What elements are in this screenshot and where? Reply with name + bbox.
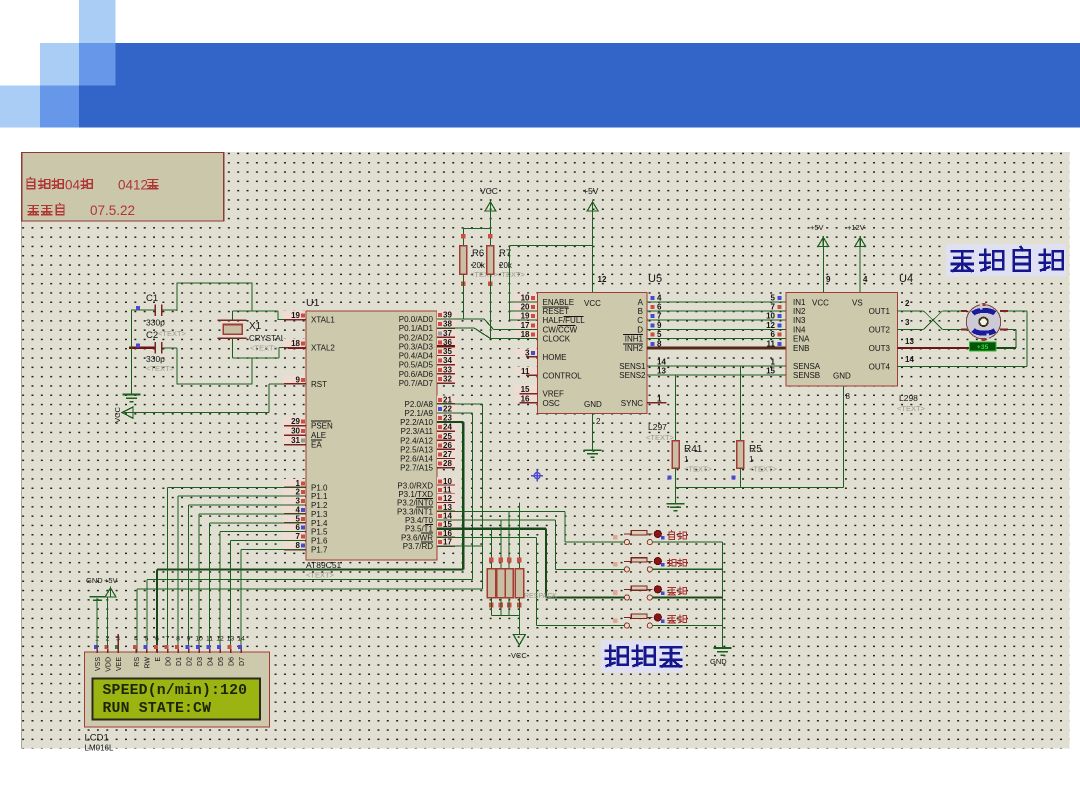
LCD pin 8 D1 bbox=[177, 645, 179, 653]
svg-text:RS: RS bbox=[134, 657, 141, 667]
U1 pin 38 P0.1/AD1 bbox=[437, 320, 457, 328]
svg-text:INH2: INH2 bbox=[625, 344, 644, 353]
wire P1.0 to D0 bbox=[168, 486, 307, 488]
ground R41 R5 bbox=[667, 503, 685, 505]
svg-text:10: 10 bbox=[766, 312, 775, 321]
LCD pin 10 D3 bbox=[198, 645, 200, 653]
svg-text:8: 8 bbox=[176, 636, 180, 643]
U1 pin 2 P1.1 bbox=[283, 488, 305, 496]
LCD pin 12 D5 bbox=[219, 645, 221, 653]
svg-text:+12V: +12V bbox=[847, 223, 865, 232]
wire INH1 to ENA bbox=[647, 338, 786, 340]
svg-text:8: 8 bbox=[296, 541, 301, 550]
svg-text:P0.3/AD3: P0.3/AD3 bbox=[399, 342, 434, 351]
wire C1 right branch to top net bbox=[176, 283, 178, 311]
U1 pin 21 P2.0/A8 bbox=[437, 395, 457, 403]
LCD pin 11 D4 bbox=[209, 645, 211, 653]
node markers R41 R5 bbox=[668, 476, 672, 480]
svg-text:30: 30 bbox=[291, 427, 300, 436]
wire crystal top to XTAL1 bbox=[231, 311, 233, 320]
svg-text:VS: VS bbox=[852, 299, 863, 308]
svg-text:18: 18 bbox=[521, 330, 530, 339]
svg-text:2: 2 bbox=[596, 417, 601, 426]
motor step indicator bbox=[970, 342, 997, 351]
svg-text:3: 3 bbox=[296, 497, 301, 506]
LCD1 LM016L body bbox=[85, 652, 270, 727]
button 4 label bbox=[668, 616, 676, 623]
motor shaft bbox=[979, 318, 988, 327]
svg-text:15: 15 bbox=[766, 367, 775, 376]
wire P0.1 to CLOCK bbox=[437, 327, 475, 329]
svg-text:<TEXT>: <TEXT> bbox=[646, 433, 675, 442]
svg-text:26: 26 bbox=[443, 441, 452, 450]
svg-text:SYNC: SYNC bbox=[621, 399, 643, 408]
push button 3 正转 bbox=[624, 595, 629, 600]
U1 pin 9 RST bbox=[283, 375, 305, 383]
LCD pin 1 VSS bbox=[96, 645, 98, 653]
wire P1.3 to D3 bbox=[199, 513, 306, 515]
svg-text:E: E bbox=[155, 657, 162, 662]
svg-text:D7: D7 bbox=[239, 657, 246, 666]
svg-text:14: 14 bbox=[237, 636, 245, 643]
wire VCC branch to R6 bbox=[463, 227, 490, 229]
svg-text:+35: +35 bbox=[977, 344, 989, 351]
U1 pin 27 P2.6/A14 bbox=[437, 450, 457, 458]
U5 CONTROL stub bbox=[526, 374, 538, 376]
svg-text:RESPACK: RESPACK bbox=[524, 593, 557, 600]
U5 pin 20 RESET bbox=[515, 303, 537, 311]
svg-text:6: 6 bbox=[771, 330, 776, 339]
svg-text:CRYSTAL: CRYSTAL bbox=[249, 334, 286, 343]
wire XTAL2 selected segment bbox=[288, 346, 306, 349]
svg-text:39: 39 bbox=[443, 311, 452, 320]
wire OUT1 cross bbox=[898, 310, 924, 312]
U1 pin 5 P1.4 bbox=[283, 514, 305, 522]
microcontroller U1 AT89C51 body bbox=[306, 311, 437, 560]
svg-text:CW/CCW: CW/CCW bbox=[543, 325, 578, 334]
svg-text:28: 28 bbox=[443, 459, 452, 468]
svg-text:OSC: OSC bbox=[543, 399, 561, 408]
svg-text:6: 6 bbox=[657, 303, 662, 312]
svg-text:+5V: +5V bbox=[583, 186, 599, 196]
svg-text:<TEXT>: <TEXT> bbox=[684, 465, 713, 474]
U1 pin 8 P1.7 bbox=[283, 541, 305, 549]
svg-text:12: 12 bbox=[598, 275, 607, 284]
wire P0.0 to CW/CCW bbox=[437, 318, 484, 320]
U5 VREF stub bbox=[519, 393, 537, 395]
wire button 4 to bus bbox=[653, 625, 723, 627]
U1 pin 16 P3.6/WR bbox=[437, 529, 457, 537]
LCD pin 14 D7 bbox=[240, 645, 242, 653]
svg-text:P2.0/A8: P2.0/A8 bbox=[405, 400, 434, 409]
svg-text:A: A bbox=[638, 298, 644, 307]
wire P3.4 to button2 bbox=[437, 519, 555, 521]
svg-text:VCC: VCC bbox=[113, 407, 122, 423]
wire P1.7 to D7 bbox=[241, 548, 306, 550]
LCD pin 13 D6 bbox=[230, 645, 232, 653]
stepper motor body bbox=[966, 305, 1000, 339]
svg-text:RESET: RESET bbox=[543, 307, 570, 316]
svg-text:37: 37 bbox=[443, 329, 452, 338]
U1 pin 13 P3.3/INT1 bbox=[437, 503, 457, 511]
svg-text:7: 7 bbox=[166, 636, 170, 643]
svg-text:12: 12 bbox=[216, 636, 224, 643]
U1 pin 26 P2.5/A13 bbox=[437, 441, 457, 449]
power VCC left arrow bbox=[122, 407, 133, 418]
U5 pin 16 OSC bbox=[515, 394, 537, 402]
LCD VEE stub red bbox=[117, 634, 119, 652]
svg-text:C2: C2 bbox=[146, 330, 158, 341]
svg-text:D5: D5 bbox=[218, 657, 225, 666]
U5 pin 15 VREF bbox=[515, 385, 537, 393]
U1 pin 39 P0.0/AD0 bbox=[437, 311, 457, 319]
svg-text:OUT1: OUT1 bbox=[869, 307, 891, 316]
wire top net drop bbox=[251, 282, 253, 311]
U1 pin 24 P2.3/A11 bbox=[437, 423, 457, 431]
svg-text:1: 1 bbox=[657, 394, 662, 403]
wire P3.6 to button4 bbox=[437, 536, 537, 538]
svg-text:7: 7 bbox=[771, 303, 776, 312]
svg-text:19: 19 bbox=[521, 312, 530, 321]
wire P2.1 to LCD RW bbox=[437, 412, 473, 414]
motor terminals top bottom bbox=[981, 303, 985, 306]
button 1 label bbox=[669, 531, 675, 540]
wire P1.4 to D4 bbox=[210, 522, 307, 524]
LCD pin 2 VDD bbox=[107, 645, 109, 653]
svg-text:5: 5 bbox=[296, 514, 301, 523]
svg-text:P1.5: P1.5 bbox=[311, 528, 328, 537]
svg-text:1: 1 bbox=[684, 455, 689, 464]
svg-text:33: 33 bbox=[443, 365, 452, 374]
svg-text:SENSA: SENSA bbox=[793, 362, 821, 371]
svg-text:10: 10 bbox=[195, 636, 203, 643]
svg-text:R6: R6 bbox=[472, 248, 484, 259]
svg-text:<TEXT>: <TEXT> bbox=[146, 364, 175, 373]
wire P2.2 to LCD E selected bbox=[437, 421, 463, 423]
wire P3.5 to button3 selected bbox=[437, 528, 546, 530]
crystal X1 bbox=[223, 325, 242, 335]
svg-text:D2: D2 bbox=[187, 657, 194, 666]
svg-text:VEE: VEE bbox=[116, 657, 123, 671]
resistor R5 bbox=[737, 441, 744, 468]
wire P1.2 to D2 bbox=[189, 504, 307, 506]
svg-text:SENS1: SENS1 bbox=[619, 362, 646, 371]
svg-text:17: 17 bbox=[521, 321, 530, 330]
svg-text:<TEXT>: <TEXT> bbox=[749, 465, 778, 474]
U1 pin 7 P1.6 bbox=[283, 532, 305, 540]
sheet left edge line bbox=[21, 152, 23, 749]
svg-text:1: 1 bbox=[296, 479, 301, 488]
motor coil bottom bbox=[973, 330, 995, 333]
svg-text:07.5.22: 07.5.22 bbox=[90, 203, 135, 218]
svg-text:14: 14 bbox=[657, 358, 666, 367]
wire SENS1 to SENSA bbox=[647, 365, 786, 367]
resistor pack RP1 bbox=[487, 569, 495, 598]
svg-text:SENS2: SENS2 bbox=[619, 371, 646, 380]
header left light square bbox=[40, 43, 79, 85]
svg-text:ENB: ENB bbox=[793, 344, 809, 353]
svg-text:EA: EA bbox=[311, 441, 322, 450]
svg-text:17: 17 bbox=[443, 538, 452, 547]
motor coil top bbox=[973, 310, 995, 313]
svg-text:11: 11 bbox=[443, 486, 452, 495]
button 2 label bbox=[668, 559, 676, 567]
svg-text:20: 20 bbox=[521, 303, 530, 312]
U5 pin 8 INH2 bbox=[651, 342, 655, 346]
svg-text:P3.4/T0: P3.4/T0 bbox=[405, 516, 434, 525]
U1 pin 12 P3.2/INT0 bbox=[437, 494, 457, 502]
svg-text:HOME: HOME bbox=[543, 353, 567, 362]
svg-text:RW: RW bbox=[145, 657, 152, 669]
respack pull-up taps bbox=[490, 529, 492, 569]
svg-text:P2.6/A14: P2.6/A14 bbox=[400, 455, 433, 464]
wire R7 bottom to CLOCK junction bbox=[489, 274, 491, 339]
title block bbox=[22, 152, 224, 221]
U1 pin 30 ALE bbox=[283, 427, 305, 435]
svg-text:24: 24 bbox=[443, 423, 452, 432]
svg-text:11: 11 bbox=[767, 340, 776, 349]
svg-text:OUT2: OUT2 bbox=[869, 325, 891, 334]
svg-text:<TEXT>: <TEXT> bbox=[306, 571, 335, 580]
svg-text:11: 11 bbox=[206, 636, 213, 643]
label 控制台 control console bbox=[601, 641, 683, 673]
svg-text:<TEXT>: <TEXT> bbox=[497, 270, 526, 279]
svg-text:C: C bbox=[637, 316, 643, 325]
ground capacitors left bbox=[131, 310, 133, 395]
svg-text:XTAL1: XTAL1 bbox=[311, 316, 335, 325]
LCD screen bbox=[93, 679, 261, 720]
LCD pin 7 D0 bbox=[167, 645, 169, 653]
wire B to IN2 bbox=[647, 310, 786, 312]
svg-text:U4: U4 bbox=[899, 273, 913, 285]
wire crystal bottom to XTAL2 bbox=[231, 338, 233, 358]
svg-text:16: 16 bbox=[521, 394, 530, 403]
header light blue square top bbox=[79, 0, 116, 43]
wire C to IN3 bbox=[647, 319, 786, 321]
LCD pin 4 RS bbox=[135, 645, 137, 653]
svg-text:21: 21 bbox=[443, 395, 452, 404]
svg-text:D3: D3 bbox=[197, 657, 204, 666]
U1 pin 36 selected stub bbox=[437, 345, 455, 347]
svg-text:20k: 20k bbox=[472, 261, 486, 270]
svg-text:9: 9 bbox=[296, 375, 301, 384]
svg-text:13: 13 bbox=[227, 636, 235, 643]
svg-text:4: 4 bbox=[657, 293, 662, 302]
svg-text:IN2: IN2 bbox=[793, 307, 806, 316]
svg-text:32: 32 bbox=[443, 375, 452, 384]
svg-text:22: 22 bbox=[443, 405, 452, 414]
svg-text:2: 2 bbox=[296, 488, 301, 497]
svg-text:VCC: VCC bbox=[812, 299, 829, 308]
label 步进电机 stepper motor bbox=[946, 245, 1066, 277]
svg-text:VREF: VREF bbox=[543, 390, 564, 399]
svg-text:P1.3: P1.3 bbox=[311, 510, 328, 519]
title text line2 唐亚民 07.5.22 bbox=[28, 206, 38, 215]
svg-text:OUT3: OUT3 bbox=[869, 344, 891, 353]
wire SENS2 to SENSB bbox=[647, 374, 786, 376]
svg-text:P1.6: P1.6 bbox=[311, 537, 328, 546]
U5 pin 5 INH1 bbox=[651, 333, 655, 337]
U5 pin 7 C bbox=[651, 314, 655, 318]
svg-text:D6: D6 bbox=[229, 657, 236, 666]
resistor R7 bbox=[487, 246, 494, 275]
U1 pin 32 P0.7/AD7 bbox=[437, 375, 457, 383]
U5 SYNC stub bbox=[647, 402, 667, 404]
svg-text:P2.3/A11: P2.3/A11 bbox=[401, 427, 434, 436]
svg-text:IN3: IN3 bbox=[793, 316, 806, 325]
svg-text:D1: D1 bbox=[176, 657, 183, 666]
svg-text:P3.1/TXD: P3.1/TXD bbox=[398, 490, 433, 499]
wire button 1 to bus bbox=[653, 541, 723, 543]
svg-text:IN4: IN4 bbox=[793, 325, 806, 334]
svg-text:L298: L298 bbox=[899, 393, 918, 403]
svg-text:12: 12 bbox=[766, 321, 775, 330]
LCD pin 5 RW bbox=[146, 645, 148, 653]
svg-text:VDD: VDD bbox=[106, 657, 113, 672]
svg-text:P3.0/RXD: P3.0/RXD bbox=[397, 481, 433, 490]
svg-text:SPEED(n/min):120: SPEED(n/min):120 bbox=[103, 683, 248, 699]
U5 pin 4 A bbox=[651, 296, 655, 300]
svg-text:LCD1: LCD1 bbox=[85, 733, 109, 744]
wire SENS2 to R41 bbox=[675, 375, 677, 441]
ground buttons bbox=[713, 647, 731, 649]
U5 pin 11 CONTROL bbox=[515, 367, 537, 375]
svg-text:1: 1 bbox=[749, 455, 754, 464]
svg-text:9: 9 bbox=[187, 636, 191, 643]
capacitor C2 bbox=[129, 347, 155, 349]
U1 pin 23 P2.2/A10 bbox=[437, 414, 457, 422]
svg-text:330p: 330p bbox=[146, 318, 165, 328]
svg-text:6: 6 bbox=[296, 523, 301, 532]
driver U5 L297 body bbox=[538, 293, 648, 414]
svg-text:P3.7/RD: P3.7/RD bbox=[403, 542, 433, 551]
LCD pin 3 VEE bbox=[117, 645, 119, 653]
svg-text:VSS: VSS bbox=[95, 657, 102, 671]
svg-text:20k: 20k bbox=[499, 261, 513, 270]
driver U4 L298 body bbox=[786, 292, 898, 386]
svg-text:P0.0/AD0: P0.0/AD0 bbox=[399, 315, 434, 324]
capacitor C1 bbox=[132, 309, 155, 311]
svg-text:CONTROL: CONTROL bbox=[543, 371, 583, 380]
svg-text:<TEXT>: <TEXT> bbox=[158, 329, 187, 338]
U1 pin 17 P3.7/RD bbox=[437, 538, 457, 546]
svg-text:P2.2/A10: P2.2/A10 bbox=[400, 418, 433, 427]
svg-text:27: 27 bbox=[443, 450, 452, 459]
svg-text:R41: R41 bbox=[684, 444, 703, 455]
header bottom-left light square bbox=[0, 85, 40, 127]
svg-text:3: 3 bbox=[905, 318, 910, 327]
wire P3.7 to RS riser junction bbox=[437, 545, 483, 547]
U5 pin 6 B bbox=[651, 305, 655, 309]
svg-text:+5V: +5V bbox=[810, 223, 824, 232]
push button 4 反转 bbox=[624, 623, 629, 628]
svg-text:P2.4/A12: P2.4/A12 bbox=[400, 436, 433, 445]
U1 pin 29 PSEN bbox=[283, 417, 305, 425]
U5 pin 19 HALF/FULL bbox=[515, 312, 537, 320]
wire P3.3 to button1 bbox=[437, 510, 565, 512]
svg-text:P1.1: P1.1 bbox=[311, 492, 328, 501]
svg-text:OUT4: OUT4 bbox=[869, 362, 891, 371]
power VCC down arrow bbox=[513, 635, 525, 646]
svg-text:5: 5 bbox=[657, 330, 662, 339]
svg-text:19: 19 bbox=[291, 311, 300, 320]
wire D to IN4 bbox=[647, 328, 786, 330]
wire button 3 to bus bbox=[653, 596, 723, 598]
U1 pin 19 XTAL1 bbox=[283, 311, 305, 319]
wire R6 bottom to P0.0 bbox=[462, 274, 464, 319]
svg-text:C1: C1 bbox=[146, 293, 158, 304]
LCD pin 6 E bbox=[156, 645, 158, 653]
svg-text:34: 34 bbox=[443, 356, 452, 365]
U1 pin 6 P1.5 bbox=[283, 523, 305, 531]
svg-text:ENABLE: ENABLE bbox=[543, 298, 575, 307]
svg-text:RST: RST bbox=[311, 380, 327, 389]
svg-text:0412: 0412 bbox=[118, 178, 148, 193]
svg-text:16: 16 bbox=[443, 529, 452, 538]
U1 pin 11 P3.1/TXD bbox=[437, 486, 457, 494]
wire P1.5 to D5 bbox=[220, 531, 306, 533]
wire OUT2 cross bbox=[898, 328, 924, 330]
U1 pin 25 P2.4/A12 bbox=[437, 432, 457, 440]
wire +5V to ENABLE/RESET/HALF bbox=[509, 245, 592, 247]
wire bottom net drop bbox=[251, 358, 253, 385]
svg-text:5: 5 bbox=[771, 293, 776, 302]
svg-text:18: 18 bbox=[291, 339, 300, 348]
svg-text:10: 10 bbox=[443, 477, 452, 486]
svg-text:P1.7: P1.7 bbox=[311, 546, 328, 555]
svg-text:IN1: IN1 bbox=[793, 298, 806, 307]
svg-text:D4: D4 bbox=[208, 657, 215, 666]
svg-text:4: 4 bbox=[134, 636, 138, 643]
wire C2 right branch to bottom net bbox=[176, 348, 178, 384]
svg-text:VCC: VCC bbox=[480, 186, 498, 196]
push button 2 减速 bbox=[624, 567, 629, 572]
button 3 label bbox=[668, 588, 676, 595]
svg-text:+5V: +5V bbox=[104, 576, 118, 585]
wire top net horizontal bbox=[176, 282, 252, 284]
U5 pin 17 CW/CCW bbox=[515, 321, 537, 329]
wire button 2 to bus bbox=[653, 568, 723, 570]
motor right stubs bbox=[1000, 310, 1008, 312]
U1 pin 3 P1.2 bbox=[283, 497, 305, 505]
wire INH2 to ENB selected bbox=[647, 346, 786, 349]
svg-text:13: 13 bbox=[905, 337, 914, 346]
svg-text:13: 13 bbox=[443, 503, 452, 512]
svg-text:P2.5/A13: P2.5/A13 bbox=[400, 445, 433, 454]
header dark blue band bbox=[116, 43, 1080, 128]
U1 pin 14 P3.4/T0 bbox=[437, 512, 457, 520]
svg-text:13: 13 bbox=[657, 367, 666, 376]
svg-text:P0.2/AD2: P0.2/AD2 bbox=[399, 333, 434, 342]
node marker C2 bbox=[136, 343, 140, 347]
svg-text:1: 1 bbox=[771, 358, 776, 367]
svg-text:P3.3/INT1: P3.3/INT1 bbox=[397, 507, 434, 516]
U1 pin 15 P3.5/T1 bbox=[437, 520, 457, 528]
svg-text:8: 8 bbox=[846, 392, 851, 401]
svg-text:P0.7/AD7: P0.7/AD7 bbox=[399, 379, 434, 388]
svg-text:B: B bbox=[638, 307, 643, 316]
header medium blue square bbox=[79, 43, 116, 85]
U1 pin 33 P0.6/AD6 bbox=[437, 365, 457, 373]
wire U4 GND to ground rail bbox=[843, 386, 845, 487]
wire OUT4 bbox=[898, 365, 1027, 367]
svg-text:P0.1/AD1: P0.1/AD1 bbox=[399, 324, 434, 333]
svg-text:7: 7 bbox=[296, 532, 301, 541]
wire bottom net horizontal bbox=[176, 383, 252, 385]
svg-text:31: 31 bbox=[291, 436, 300, 445]
U5 pin 18 CLOCK bbox=[515, 330, 537, 338]
U1 pin 1 P1.0 bbox=[283, 479, 305, 487]
